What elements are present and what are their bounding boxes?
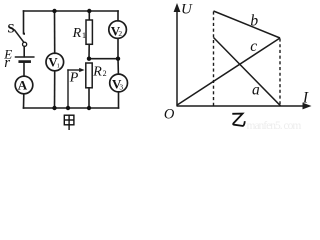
svg-text:manfen5. com: manfen5. com (247, 120, 302, 132)
svg-text:S: S (7, 20, 14, 35)
svg-text:I: I (302, 89, 309, 106)
svg-text:U: U (181, 1, 193, 17)
svg-text:r: r (4, 55, 10, 71)
svg-text:b: b (250, 12, 258, 29)
svg-text:R: R (72, 26, 82, 41)
svg-text:2: 2 (118, 29, 122, 38)
svg-text:1: 1 (82, 30, 86, 40)
svg-text:3: 3 (119, 82, 123, 91)
svg-text:R: R (92, 65, 102, 80)
svg-text:2: 2 (103, 69, 107, 78)
svg-text:O: O (164, 107, 175, 123)
svg-text:a: a (252, 81, 260, 98)
svg-text:1: 1 (57, 63, 60, 70)
svg-text:c: c (250, 38, 257, 55)
svg-text:P: P (69, 71, 79, 86)
svg-text:A: A (18, 78, 28, 93)
